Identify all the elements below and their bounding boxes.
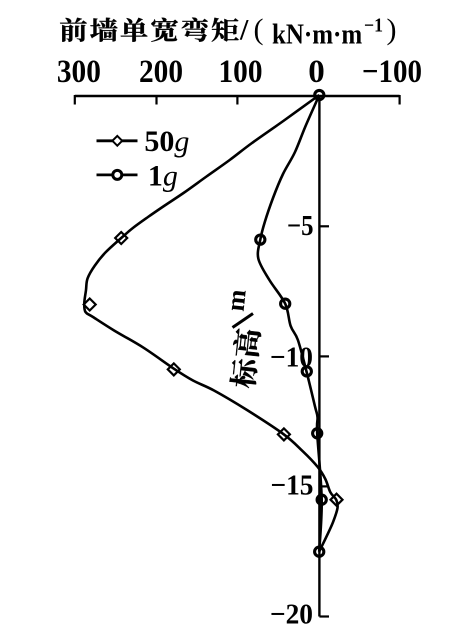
y-axis title 标高/m (rotated) [229,328,262,389]
1g data marker circle 5 [317,495,326,504]
svg-text:(: ( [254,13,264,46]
svg-text:kN·m·m: kN·m·m [272,19,362,51]
svg-text:/: / [239,14,249,47]
svg-text:50g: 50g [144,125,189,158]
svg-text:1g: 1g [148,159,178,192]
y-axis tick at -5 [319,225,329,227]
svg-text:100: 100 [219,54,263,90]
svg-text:−1: −1 [364,16,383,37]
50g data marker diamond 2 [84,299,96,311]
50g data marker diamond 3 [168,363,180,375]
title CJK char 矩 [212,18,239,42]
legend 50g sample line [97,139,138,142]
svg-text:−5: −5 [287,210,314,242]
title CJK char 墙 [90,18,117,42]
curve 1g [258,95,322,552]
legend 1g sample line [97,173,138,176]
y-axis tick at -15 [319,485,329,487]
y-axis label CJK char 高 [232,328,262,358]
svg-text:): ) [387,13,397,46]
50g data marker diamond 4 [278,428,290,440]
legend 50g diamond marker [112,136,122,146]
1g data marker circle 6 [315,547,324,556]
1g data marker circle 1 [256,235,265,244]
svg-text:−15: −15 [271,470,314,502]
1g data marker circle 3 [302,367,311,376]
legend 1g circle marker [113,170,122,179]
svg-text:−20: −20 [270,599,313,631]
50g data marker diamond 5 [331,494,343,506]
title CJK characters 前墙单宽弯矩 [60,18,239,42]
y-axis line [318,96,320,617]
x-axis line [75,95,400,97]
svg-text:300: 300 [57,54,101,90]
y-axis tick at -20 (bottom end) [319,615,329,617]
x-axis tick at 200 [155,96,157,105]
1g data marker circle 2 [281,299,290,308]
x-axis tick at 300 (left end) [74,95,76,105]
y-axis label CJK char 标 [229,358,259,389]
svg-text:0: 0 [308,54,325,90]
title CJK char 单 [121,18,148,42]
50g data marker diamond 1 [115,232,127,244]
svg-text:200: 200 [139,54,183,90]
svg-text:−100: −100 [362,54,422,90]
title CJK char 弯 [182,18,208,42]
x-axis tick at -100 (right end) [399,95,401,105]
title CJK char 前 [60,18,87,42]
y-axis title slash [233,314,254,328]
title CJK char 宽 [151,18,178,42]
svg-text:m: m [221,288,252,313]
x-axis tick at 100 [236,96,238,105]
y-axis tick at -10 [319,355,329,357]
curve 50g [84,95,337,552]
1g data marker circle 0 [315,90,324,99]
1g data marker circle 4 [313,429,322,438]
